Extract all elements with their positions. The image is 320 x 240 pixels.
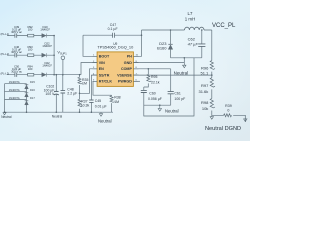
svg-text:Neutral: Neutral [98,119,112,124]
C47 wire [83,34,142,36]
svg-text:305 V ac: 305 V ac [11,69,22,73]
svg-text:100: 100 [28,67,33,71]
bottom bus [5,111,114,113]
svg-text:Neutral DGND: Neutral DGND [205,126,241,132]
svg-text:C45: C45 [95,99,101,103]
svg-text:305 V ac: 305 V ac [11,30,22,34]
svg-text:RT/CLK: RT/CLK [99,80,113,84]
svg-text:B160: B160 [157,45,167,50]
wire row3 [7,74,54,76]
IC pin numbers [93,55,139,82]
capacitor C102 electrolytic [54,91,59,95]
svg-text:(PL-L2): (PL-L2) [1,52,10,56]
svg-text:R39: R39 [225,104,232,108]
svg-text:VCC_PL: VCC_PL [212,23,236,29]
svg-text:R95: R95 [151,75,157,79]
C60C61 bottom wire [144,104,171,106]
svg-text:1N4007A: 1N4007A [9,88,20,92]
svg-text:VSENSE: VSENSE [117,73,132,77]
svg-text:51.1: 51.1 [201,71,210,76]
diode D21 [42,53,46,57]
svg-text:10.3k: 10.3k [81,104,90,108]
svg-text:PWRGD: PWRGD [118,80,132,84]
svg-text:0.1 µF: 0.1 µF [108,27,118,31]
wire row1 [7,35,54,37]
svg-text:0.056 µF: 0.056 µF [148,97,162,101]
resistor R96 [210,61,215,70]
neutral rail left [4,84,6,113]
ground arrow neutral (GND pin) [183,63,185,66]
neutral wire D23-C62 [171,57,202,59]
svg-text:1N4007: 1N4007 [40,28,50,32]
ladder rung2 [5,91,27,93]
svg-text:1N4007A: 1N4007A [9,80,20,84]
svg-text:D15: D15 [30,80,35,84]
ground arrow DGND [244,119,247,122]
rectified bus [53,36,55,75]
svg-text:22.1k: 22.1k [151,80,160,84]
svg-text:EN: EN [99,67,104,71]
vsense wire [133,74,211,76]
svg-text:R97: R97 [201,83,209,88]
capacitor C50 [15,73,17,77]
svg-text:COMP: COMP [121,67,132,71]
svg-text:Neutral: Neutral [165,109,179,114]
capacitor C45 [89,100,93,102]
svg-text:Neutral: Neutral [174,71,189,76]
svg-text:BOOT: BOOT [99,55,110,59]
resistor R94 [28,73,34,76]
svg-text:10k: 10k [202,106,208,111]
svg-text:(PL-L3): (PL-L3) [1,71,10,75]
ground arrow neutral (divider) [211,115,213,116]
svg-text:0.01 µF: 0.01 µF [95,105,107,109]
svg-text:TPS54060_DGQ_10: TPS54060_DGQ_10 [97,45,134,50]
svg-text:1N4007A: 1N4007A [9,96,20,100]
IC pin names [99,55,133,84]
IC pin stubs [93,56,139,81]
resistor R37 [78,99,83,106]
vsup stem [62,60,64,75]
svg-text:100: 100 [28,47,33,51]
IC U9 TPS54060_DGQ_10 body [97,52,133,87]
vin wire [54,63,97,75]
svg-text:0: 0 [227,108,229,112]
svg-text:1M: 1M [114,100,119,104]
wire row2 [7,54,54,56]
diode D10 [25,34,173,105]
svg-text:D16: D16 [30,88,35,92]
svg-text:100 V: 100 V [45,92,55,96]
label C102 [44,85,55,97]
comp wire [133,68,170,70]
svg-text:D17: D17 [30,96,35,100]
diode D17 [25,101,29,105]
R95 branch [144,69,149,90]
C48 stem [62,75,64,113]
svg-text:VIN: VIN [99,61,105,65]
R39 wire [212,115,246,122]
diode D16 [25,93,29,97]
capacitor C48 [61,91,66,93]
ladder rung3 [5,99,27,101]
neutral drop x184 [183,58,185,63]
labels [11,25,52,73]
ss/tr route to C45 [91,75,97,112]
svg-text:C60: C60 [149,91,155,95]
resistor R98 [210,99,215,108]
capacitor C47 [113,33,115,38]
resistor R95 [147,75,152,82]
C102 stem [55,75,57,113]
ground arrow neutral (far left) [3,113,6,115]
svg-text:GND: GND [124,61,132,65]
capacitor C60 [141,90,147,92]
ground arrow neutral (center bottom) [3,63,247,122]
resistor R39 [224,114,232,117]
diode D22 [42,73,46,77]
resistor R38 [110,96,115,103]
top wire to L7 [142,30,212,60]
svg-text:C61: C61 [174,91,180,95]
inductor L7 [185,27,204,30]
svg-text:Neutral: Neutral [1,115,12,119]
svg-text:2.2 µF: 2.2 µF [67,92,77,96]
svg-text:100 pF: 100 pF [174,97,185,101]
C62 stem [201,30,203,58]
svg-text:47 µF: 47 µF [188,41,199,46]
C60 branch down [144,58,194,116]
circuit schematic: TPS54060 three-phase supply [0,0,250,141]
label C48 [67,11,198,109]
svg-text:100: 100 [28,28,33,32]
diode D23 [168,45,172,49]
capacitor C46 [15,53,17,57]
svg-text:31.6k: 31.6k [199,89,209,94]
capacitor C39 [15,33,115,77]
junction dots [4,29,213,113]
en route [80,69,98,94]
ladder diode chain [26,84,28,113]
ground arrow neutral (C60/C61) [159,105,161,108]
svg-text:1N4007: 1N4007 [42,44,52,48]
label R96 [199,66,210,111]
svg-text:R98: R98 [201,100,209,105]
diode D15 [25,85,29,89]
PH wire [133,30,141,56]
boot wire [83,35,97,56]
resistor R92 [28,34,232,117]
resistor R97 [210,78,215,87]
svg-text:(PL-L1): (PL-L1) [1,32,10,36]
resistor R93 [28,54,34,57]
divider chain [211,60,213,115]
svg-text:PH: PH [127,55,132,59]
svg-text:1N4007: 1N4007 [42,64,52,68]
ladder rung1 [5,83,27,85]
svg-text:Neutral: Neutral [52,114,63,118]
svg-text:SS/TR: SS/TR [99,73,110,77]
gnd pin wire [133,62,184,64]
capacitor C62 [61,44,206,103]
C61 branch [170,69,172,105]
svg-text:L7: L7 [188,11,193,16]
svg-text:1M: 1M [82,82,87,86]
rt/clk route to R38 [93,81,112,112]
terminal V_SUP1 [61,56,65,60]
resistor R35 [78,77,83,84]
capacitor C61 [168,92,174,94]
svg-text:1 mH: 1 mH [185,17,196,22]
pwrgd stub [133,80,140,82]
R35 R37 chain [79,75,81,113]
svg-text:305 V ac: 305 V ac [11,50,22,54]
D23 stem [170,30,172,58]
